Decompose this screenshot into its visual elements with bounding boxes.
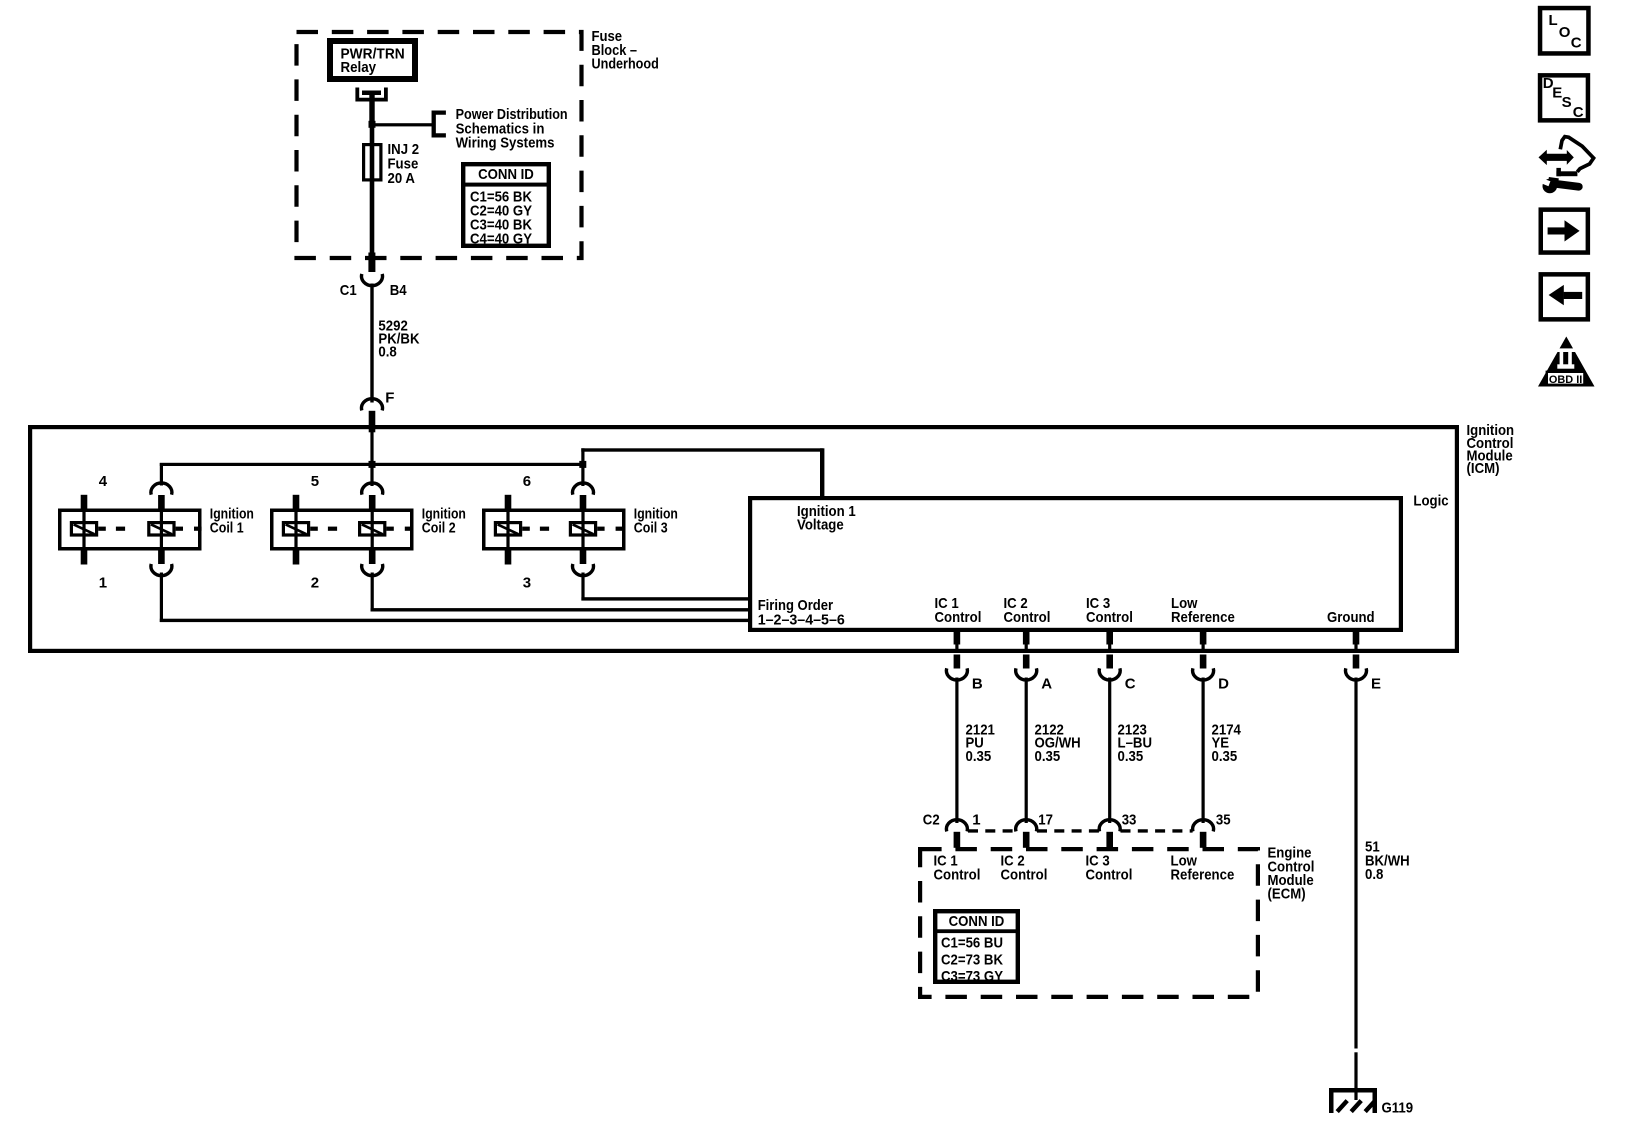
wire Ground stub from logic box [1353, 630, 1360, 645]
svg-text:0.35: 0.35 [1035, 748, 1061, 765]
svg-text:4: 4 [99, 473, 108, 490]
svg-text:Relay: Relay [341, 59, 377, 76]
wire junction to page reference [374, 123, 434, 126]
coil 2 primary terminal stub bottom [293, 549, 300, 565]
svg-text:33: 33 [1122, 812, 1137, 829]
svg-text:1: 1 [972, 812, 980, 829]
connector D cup [1193, 668, 1214, 680]
connector A cup [1016, 668, 1037, 680]
svg-text:(ICM): (ICM) [1467, 460, 1500, 477]
coil 1 secondary winding element [149, 523, 174, 535]
coil 1 primary terminal stub top [81, 495, 88, 510]
svg-text:1: 1 [99, 574, 107, 591]
wire 5292 PK/BK 0.8 [370, 284, 373, 403]
wire 2121 PU 0.35 [955, 678, 958, 824]
junction node bus coil2 feed [369, 461, 376, 468]
wire junction to fuse [370, 124, 375, 145]
coil 1 secondary wire [160, 509, 163, 550]
svg-text:Control: Control [934, 867, 981, 884]
icon DESC button [1540, 75, 1588, 120]
coil 1 coupling dash links [98, 527, 106, 531]
connector C2 arch pin 35 [1193, 820, 1214, 832]
svg-text:0.8: 0.8 [378, 343, 396, 360]
wire junction up to top run [581, 448, 584, 462]
wire junction to coil2 arch [370, 466, 373, 486]
svg-text:Reference: Reference [1171, 867, 1235, 884]
junction node [369, 121, 376, 128]
pin B stub below ICM [954, 655, 961, 669]
coil 3 primary winding element [495, 523, 520, 535]
svg-text:D: D [1218, 676, 1229, 693]
svg-text:Coil 3: Coil 3 [634, 519, 668, 536]
svg-text:Logic: Logic [1413, 493, 1448, 510]
svg-text:Control: Control [1004, 609, 1051, 626]
coil 2 top connector arch [362, 483, 383, 495]
svg-text:B4: B4 [390, 282, 407, 299]
connector B cup [946, 668, 967, 680]
coil 3 primary wire [506, 509, 509, 550]
logic box [750, 498, 1401, 630]
svg-text:0.8: 0.8 [1365, 866, 1383, 883]
svg-text:Wiring Systems: Wiring Systems [456, 134, 555, 151]
coil 2 bottom pin stub [369, 549, 376, 564]
connector C2 arch pin 17 [1016, 820, 1037, 832]
coil 3 secondary wire [581, 509, 584, 550]
coil 2 top pin stub [369, 495, 376, 510]
wire 51 BK/WH 0.8 lower [1354, 1052, 1357, 1089]
svg-text:6: 6 [523, 473, 531, 490]
ignition coil 1 box [60, 510, 200, 549]
svg-text:Coil 1: Coil 1 [210, 519, 244, 536]
svg-text:5: 5 [311, 473, 319, 490]
svg-text:C: C [1573, 104, 1584, 121]
ignition coil 2 box [272, 510, 412, 549]
svg-text:Control: Control [935, 609, 982, 626]
svg-text:CONN ID: CONN ID [478, 166, 534, 183]
wire 2123 L&#8211;BU 0.35 [1108, 678, 1111, 824]
svg-text:2: 2 [311, 574, 319, 591]
connector C1 B4 female [362, 274, 383, 286]
fuse block underhood dashed box [297, 32, 582, 258]
connector C2 arch pin 1 [946, 820, 967, 832]
coil 3 bottom pin stub [580, 549, 587, 564]
svg-text:L: L [1549, 12, 1558, 29]
wire F stub to voltage bus [370, 432, 373, 463]
coil 1 primary wire [82, 509, 85, 550]
coil 2 secondary wire [371, 509, 374, 550]
coil 2 bottom connector cup [362, 564, 383, 576]
wire 2121 stub from logic box [954, 630, 961, 645]
fuse INJ 2 20 A [364, 145, 381, 180]
coil 3 secondary winding element [570, 523, 595, 535]
svg-text:Reference: Reference [1171, 609, 1235, 626]
svg-text:C2: C2 [923, 812, 940, 829]
svg-text:E: E [1371, 676, 1381, 693]
icon back arrow button [1541, 274, 1588, 319]
svg-text:OBD II: OBD II [1549, 374, 1582, 386]
svg-text:C3=73 GY: C3=73 GY [941, 968, 1003, 985]
svg-text:Control: Control [1086, 867, 1133, 884]
wire top run to logic box [581, 448, 823, 451]
svg-text:Underhood: Underhood [592, 56, 659, 73]
ignition control module ICM box [30, 427, 1457, 651]
svg-text:0.35: 0.35 [966, 748, 992, 765]
svg-text:B: B [972, 676, 983, 693]
svg-text:G119: G119 [1382, 1100, 1414, 1117]
icon OBD II warning triangle [1538, 337, 1595, 387]
wire 51 BK/WH 0.8 upper [1354, 678, 1357, 1049]
coil 3 bottom connector cup [573, 564, 594, 576]
relay output terminal bracket [357, 88, 386, 100]
wire junction to coil3 arch [581, 466, 584, 486]
coil 1 top connector arch [151, 483, 172, 495]
svg-text:C: C [1125, 676, 1136, 693]
icon LOC button [1540, 8, 1588, 53]
coil 1 top pin stub [158, 495, 165, 510]
wire coil3 to firing order [581, 573, 584, 601]
svg-text:O: O [1559, 24, 1571, 41]
svg-text:0.35: 0.35 [1212, 748, 1238, 765]
pin C stub below ICM [1106, 655, 1113, 669]
svg-text:CONN ID: CONN ID [949, 913, 1005, 930]
svg-text:17: 17 [1038, 812, 1053, 829]
svg-text:35: 35 [1216, 812, 1231, 829]
svg-text:0.35: 0.35 [1118, 748, 1144, 765]
svg-text:Voltage: Voltage [797, 517, 844, 534]
connector C2 arch pin 33 [1099, 820, 1120, 832]
voltage bus wire horizontal [160, 463, 584, 466]
CONN ID table ECM [935, 911, 1018, 982]
pin D stub below ICM [1200, 655, 1207, 669]
svg-text:20 A: 20 A [388, 170, 416, 187]
coil 2 primary wire [294, 509, 297, 550]
coil 2 primary terminal stub top [293, 495, 300, 510]
svg-text:Control: Control [1001, 867, 1048, 884]
coil 3 top pin stub [580, 495, 587, 510]
wire coil1 to firing order [160, 573, 163, 623]
coil 3 top connector arch [573, 483, 594, 495]
pin 17 stub into ECM [1023, 832, 1030, 848]
wire 2123 stub from logic box [1106, 630, 1113, 645]
svg-text:1–2–3–4–5–6: 1–2–3–4–5–6 [758, 612, 845, 629]
page reference bracket to Power Distribution [434, 113, 446, 136]
svg-text:S: S [1562, 94, 1572, 111]
svg-text:Control: Control [1086, 609, 1133, 626]
wire relay to junction [369, 92, 374, 124]
connector C cup [1099, 668, 1120, 680]
pin 35 stub into ECM [1200, 832, 1207, 848]
coil 2 coupling dash links [310, 527, 318, 531]
svg-text:A: A [1041, 676, 1052, 693]
wire 2122 OG/WH 0.35 [1025, 678, 1028, 824]
svg-text:Coil 2: Coil 2 [422, 519, 456, 536]
connector C2 dashed gang line [968, 829, 1016, 832]
svg-text:C4=40 GY: C4=40 GY [470, 231, 532, 248]
connector E cup [1346, 668, 1367, 680]
coil 1 primary winding element [71, 523, 96, 535]
coil 2 primary winding element [283, 523, 308, 535]
wire 2122 stub from logic box [1023, 630, 1030, 645]
ground G119 symbol [1329, 1088, 1377, 1093]
coil 3 primary terminal stub top [505, 495, 512, 510]
connector F pin stub into ICM [369, 411, 376, 433]
engine control module ECM dashed box [920, 849, 1258, 997]
svg-text:C1=56 BU: C1=56 BU [941, 935, 1003, 952]
wire bus corner down to coil1 [160, 463, 163, 486]
wire drop into logic box Ignition 1 Voltage [820, 448, 824, 497]
wire coil2 to firing order [371, 573, 374, 612]
svg-text:3: 3 [523, 574, 531, 591]
coil 3 primary terminal stub bottom [505, 549, 512, 565]
icon forward arrow button [1541, 210, 1588, 253]
CONN ID table fuse block [463, 164, 549, 246]
wire 2174 stub from logic box [1200, 630, 1207, 645]
coil 1 bottom pin stub [158, 549, 165, 564]
svg-text:C1: C1 [340, 282, 357, 299]
relay K PWR/TRN box [330, 41, 415, 79]
pin 33 stub into ECM [1106, 832, 1113, 848]
svg-text:(ECM): (ECM) [1268, 886, 1306, 903]
svg-text:C: C [1571, 35, 1582, 52]
coil 1 bottom connector cup [151, 564, 172, 576]
connector C1 pin stub [368, 253, 375, 273]
svg-text:C2=73 BK: C2=73 BK [941, 951, 1003, 968]
wire fuse to fuse block exit [370, 181, 375, 255]
ignition coil 3 box [484, 510, 624, 549]
wire 2174 YE 0.35 [1202, 678, 1205, 824]
junction node bus coil3 feed [579, 461, 586, 468]
svg-text:F: F [385, 389, 394, 406]
coil 3 coupling dash links [522, 527, 530, 531]
pin A stub below ICM [1023, 655, 1030, 669]
coil 1 primary terminal stub bottom [81, 549, 88, 565]
connector F arch [362, 399, 383, 411]
pin E stub below ICM [1353, 655, 1360, 669]
pin 1 stub into ECM [954, 832, 961, 848]
icon diagnostic arrows and wrench [1539, 137, 1594, 194]
svg-text:Ground: Ground [1327, 609, 1375, 626]
coil 2 secondary winding element [360, 523, 385, 535]
